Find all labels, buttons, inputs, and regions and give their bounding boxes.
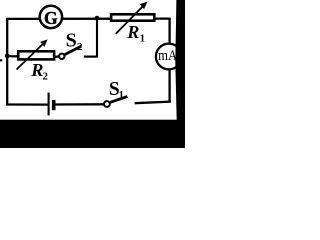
wire: S2 fixed contact segment: [84, 55, 97, 57]
wire: left vertical side: [6, 18, 8, 106]
svg-text:1: 1: [140, 33, 145, 44]
wire: bottom segment right corner to S1 fixed contact: [135, 102, 171, 104]
battery BT1 long plate: [48, 93, 50, 116]
node A (junction dot on left wire): [5, 53, 10, 58]
switch S1 pivot: [104, 101, 110, 107]
wire: cut-off stub at left image edge: [0, 59, 2, 61]
svg-text:G: G: [44, 8, 58, 28]
switch S1 blade: [110, 97, 127, 103]
right page-edge black bar: [175, 0, 185, 125]
wire: branch node A to R2: [7, 55, 18, 57]
svg-text:2: 2: [77, 41, 83, 53]
wire: branch vertical up to node B: [96, 18, 98, 58]
resistor R2 value label: [30, 60, 48, 82]
wire: right vertical side: [168, 18, 170, 103]
wire: bottom segment S1 to battery: [54, 103, 104, 105]
svg-text:R: R: [126, 22, 139, 42]
resistor R1 value label: [126, 22, 145, 44]
switch S2 label: [66, 30, 83, 54]
switch S1 label: [109, 79, 124, 101]
switch S2 blade: [65, 46, 81, 54]
galvanometer U1 G: [40, 6, 62, 28]
switch S2 pivot: [59, 54, 64, 59]
bottom page-edge black bar: [0, 120, 185, 148]
resistor R1 (rheostat body): [111, 14, 154, 20]
resistor R2 (rheostat body): [18, 51, 54, 59]
wire: bottom segment battery to left corner: [6, 103, 48, 105]
wire: R2 to S2 pivot: [55, 55, 60, 58]
wire: top side (left corner to right corner): [7, 17, 169, 20]
battery BT1 short plate: [52, 100, 56, 110]
resistor R2 arrow: [17, 39, 48, 69]
node B (junction dot on top wire): [95, 16, 100, 21]
svg-text:S: S: [66, 30, 77, 52]
milliammeter U2 mA: [156, 44, 182, 70]
svg-text:1: 1: [119, 90, 124, 101]
svg-text:2: 2: [43, 72, 48, 83]
svg-text:mA: mA: [158, 48, 177, 64]
resistor R1 arrow: [116, 2, 148, 34]
svg-text:R: R: [30, 60, 43, 80]
